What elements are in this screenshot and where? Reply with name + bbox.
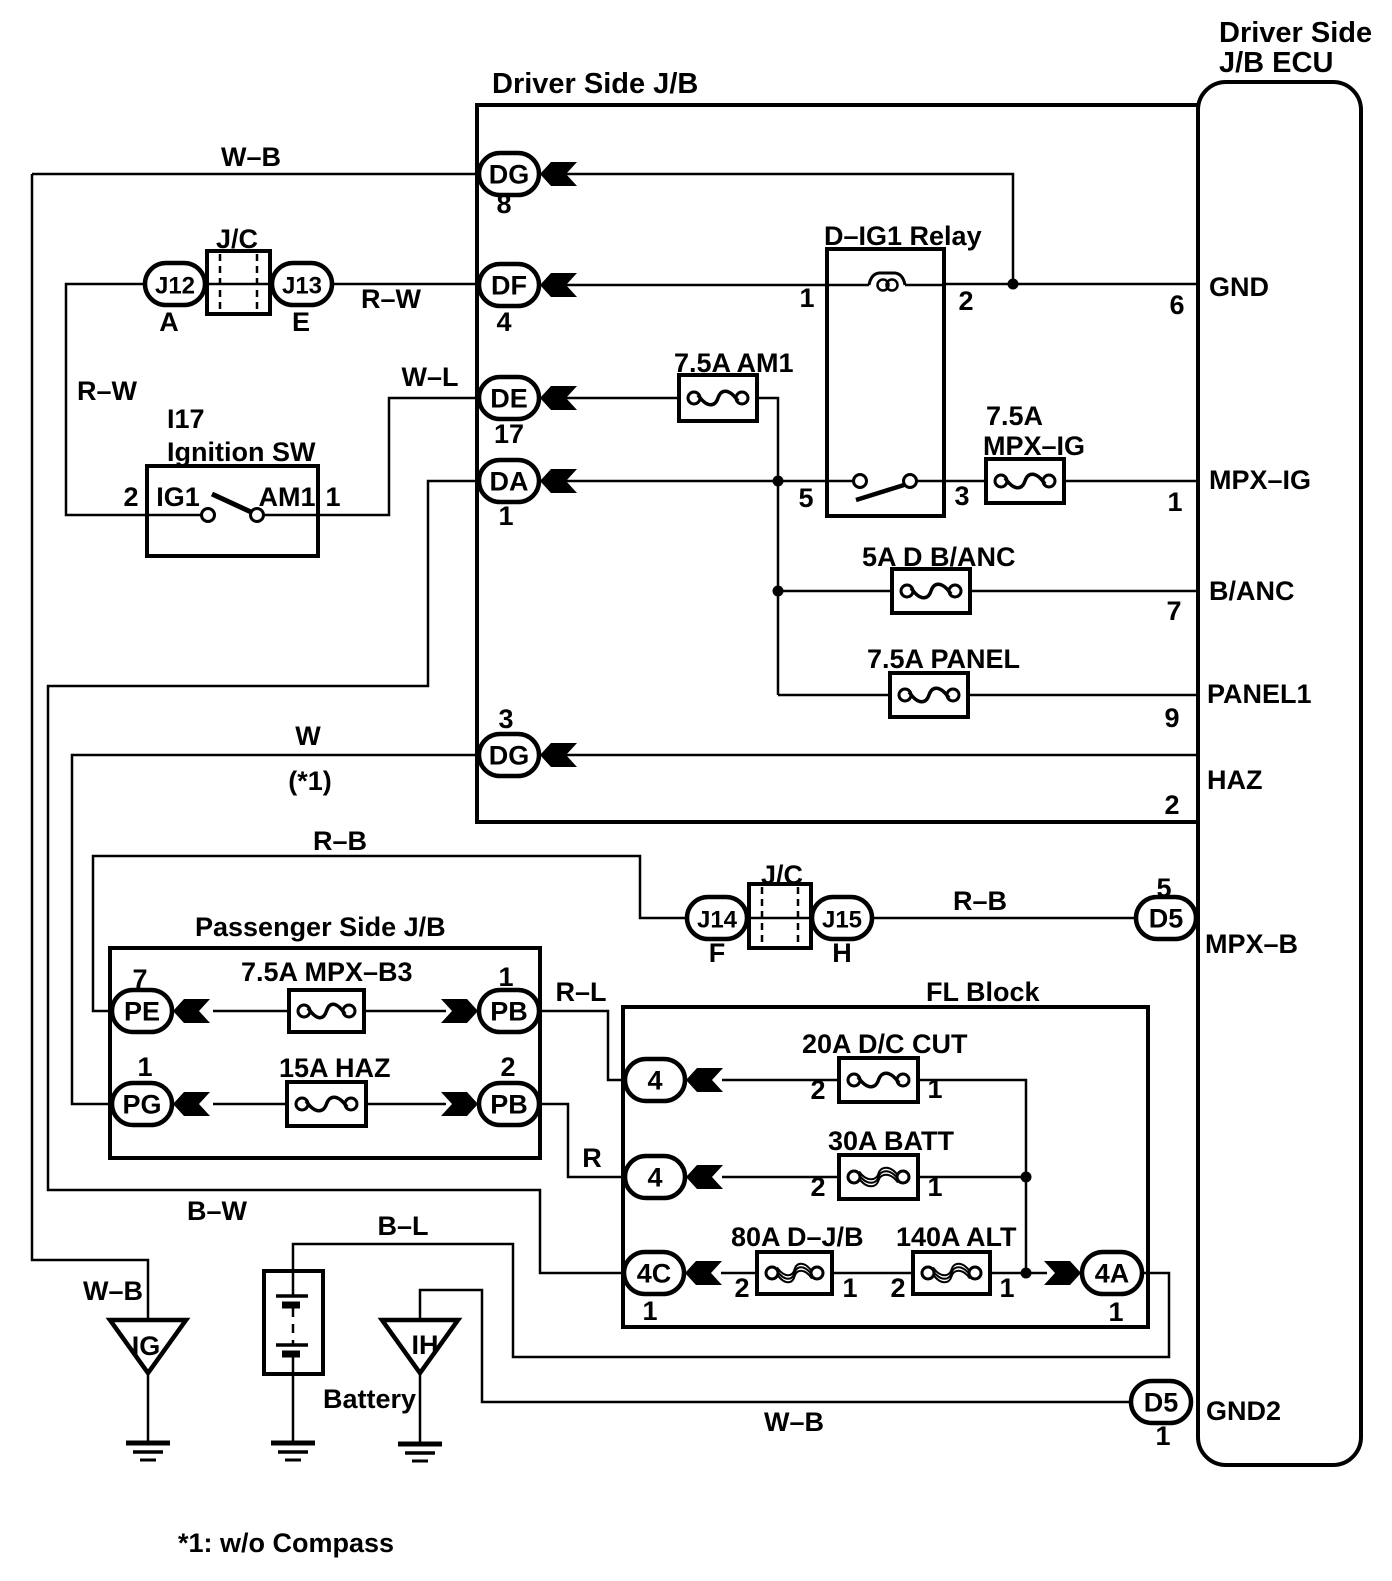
ignition switch I17 box [147, 466, 318, 556]
arrow into PB upper [441, 999, 478, 1023]
svg-text:B/ANC: B/ANC [1209, 576, 1295, 606]
svg-text:5: 5 [1156, 873, 1171, 903]
svg-text:4: 4 [647, 1066, 662, 1096]
wire fuse BATT to right bus [918, 1176, 1026, 1179]
svg-text:1: 1 [498, 501, 513, 531]
wire fuse HAZ to PB arrow [366, 1103, 446, 1106]
wire fuse MPX-B3 to PB arrow [364, 1010, 446, 1013]
svg-text:D5: D5 [1149, 904, 1184, 934]
svg-text:20A D/C CUT: 20A D/C CUT [802, 1029, 968, 1059]
fuse 15A HAZ [287, 1082, 366, 1126]
svg-text:2: 2 [734, 1273, 749, 1303]
svg-text:H: H [832, 938, 852, 968]
connector DE pin 17 [479, 377, 539, 419]
svg-text:J14: J14 [697, 907, 738, 934]
fuse 7.5A AM1 [679, 375, 757, 421]
svg-text:2: 2 [810, 1172, 825, 1202]
wire FL 4 lower to fuse BATT [722, 1176, 839, 1179]
svg-text:PB: PB [490, 1090, 528, 1120]
wire fuse AM1 to vertical bus [757, 398, 778, 695]
wire PANEL fuse to ECU pin9 [968, 694, 1198, 697]
arrow into PE [173, 999, 210, 1023]
fuse 80A D-J/B [757, 1252, 832, 1294]
fuse 7.5A PANEL [890, 673, 968, 717]
svg-text:R–W: R–W [77, 376, 138, 406]
svg-text:MPX–B: MPX–B [1205, 929, 1298, 959]
block Passenger Side J/B [110, 948, 540, 1158]
svg-text:3: 3 [954, 481, 969, 511]
connector D5 MPX-B [1136, 897, 1196, 939]
svg-text:R: R [582, 1143, 602, 1173]
svg-text:W–B: W–B [221, 142, 281, 172]
svg-text:5: 5 [798, 483, 813, 513]
svg-text:6: 6 [1169, 290, 1184, 320]
wire W-B from DG to IG ground, horizontal top [32, 173, 480, 176]
svg-text:MPX–IG: MPX–IG [983, 431, 1085, 461]
svg-text:DE: DE [490, 384, 528, 414]
arrow into FL 4C [685, 1261, 722, 1285]
arrow into PB lower [441, 1092, 478, 1116]
svg-text:GND2: GND2 [1206, 1396, 1281, 1426]
IG ground stem [147, 1373, 150, 1443]
svg-text:R–B: R–B [953, 886, 1007, 916]
svg-text:1: 1 [842, 1273, 857, 1303]
svg-text:PANEL1: PANEL1 [1207, 679, 1312, 709]
fuse 7.5A MPX-IG [986, 459, 1064, 503]
junction GND junction [1008, 279, 1019, 290]
svg-text:HAZ: HAZ [1207, 765, 1263, 795]
wire relay pin3 to fuse MPX-IG [917, 480, 986, 483]
svg-text:2: 2 [958, 286, 973, 316]
wire W-B IH triangle to D5 GND2 [420, 1290, 1132, 1402]
svg-text:4C: 4C [637, 1259, 672, 1289]
svg-text:D–IG1 Relay: D–IG1 Relay [824, 221, 982, 251]
connector J13 [272, 263, 332, 305]
svg-text:B–L: B–L [377, 1211, 428, 1241]
battery ground stem [292, 1374, 295, 1443]
junction connector J/C mid box [746, 884, 813, 948]
wire B/ANC row [778, 590, 892, 593]
svg-text:GND: GND [1209, 272, 1269, 302]
svg-text:7.5A: 7.5A [986, 401, 1043, 431]
arrow into DG [540, 162, 577, 186]
svg-text:Battery: Battery [323, 1384, 416, 1414]
relay switch contacts [854, 475, 917, 501]
svg-text:R–B: R–B [313, 826, 367, 856]
arrow into FL 4 lower [686, 1165, 723, 1189]
svg-text:J12: J12 [155, 273, 195, 300]
svg-text:Driver Side J/B: Driver Side J/B [492, 68, 698, 100]
svg-text:IH: IH [412, 1330, 439, 1360]
wire FL 4 upper to fuse D/C CUT [722, 1079, 839, 1082]
svg-text:1: 1 [927, 1172, 942, 1202]
fuse 5A D B/ANC [892, 569, 970, 613]
battery ground [271, 1443, 315, 1460]
connector FL 4A [1082, 1252, 1142, 1294]
svg-text:D5: D5 [1144, 1388, 1179, 1418]
svg-text:J/B ECU: J/B ECU [1219, 47, 1333, 79]
svg-text:DG: DG [489, 741, 530, 771]
wire W-B left vertical down to IG triangle [32, 174, 148, 1320]
svg-text:J/C: J/C [216, 224, 258, 254]
wire 4C arrow to fuse 80A [721, 1272, 757, 1275]
svg-text:W–B: W–B [764, 1407, 824, 1437]
ground triangle IH [382, 1320, 458, 1373]
svg-text:9: 9 [1164, 703, 1179, 733]
IH ground [398, 1444, 442, 1461]
wire R-L PB to FL 4 [538, 1011, 626, 1080]
wire HAZ DG3 to ECU pin2 [566, 754, 1198, 757]
svg-text:PE: PE [124, 997, 160, 1027]
svg-text:W–L: W–L [402, 362, 459, 392]
wire DA row to relay switch [566, 480, 853, 483]
fuse 20A D/C CUT [839, 1058, 918, 1102]
arrow into DG lower [540, 743, 577, 767]
svg-text:1: 1 [999, 1273, 1014, 1303]
svg-text:A: A [159, 307, 179, 337]
wire DA left to 4C via B-W [48, 481, 625, 1273]
connector DF pin 4 [479, 264, 539, 306]
ignition switch contacts [202, 494, 264, 522]
svg-text:1: 1 [1167, 487, 1182, 517]
wire R PB2 to FL 4 lower [538, 1104, 626, 1177]
svg-text:*1: w/o Compass: *1: w/o Compass [178, 1528, 394, 1558]
junction DA bus junction [773, 476, 784, 487]
wire DE to fuse AM1 [566, 397, 679, 400]
wire PG arrow to fuse HAZ [213, 1103, 287, 1106]
connector DA pin 1 [479, 460, 539, 502]
svg-text:DG: DG [489, 160, 530, 190]
svg-text:8: 8 [496, 189, 511, 219]
relay D-IG1 box [827, 249, 944, 516]
svg-text:DF: DF [491, 271, 527, 301]
svg-text:W–B: W–B [83, 1276, 143, 1306]
IH ground stem [419, 1373, 422, 1444]
block Driver Side J/B [477, 105, 1198, 822]
svg-text:7.5A PANEL: 7.5A PANEL [867, 644, 1020, 674]
arrow into DF [540, 273, 577, 297]
svg-text:17: 17 [494, 419, 524, 449]
svg-text:(*1): (*1) [288, 766, 332, 796]
svg-text:B–W: B–W [187, 1196, 248, 1226]
svg-text:140A ALT: 140A ALT [896, 1222, 1017, 1252]
relay coil [827, 273, 944, 291]
wire PE arrow to fuse MPX-B3 [213, 1010, 289, 1013]
wire R-W J13 to DF [331, 283, 480, 286]
junction B/ANC junction [773, 586, 784, 597]
wire fuse MPX-IG to ECU pin1 [1064, 480, 1198, 483]
connector J14 [687, 897, 747, 939]
svg-text:IG: IG [132, 1331, 161, 1361]
svg-text:2: 2 [123, 482, 138, 512]
svg-text:2: 2 [890, 1273, 905, 1303]
svg-text:4A: 4A [1095, 1259, 1130, 1289]
connector FL 4C [624, 1252, 684, 1294]
svg-text:1: 1 [642, 1296, 657, 1326]
connector J12 [145, 263, 205, 305]
svg-text:7: 7 [1166, 596, 1181, 626]
connector DG pin 8 [479, 153, 539, 195]
IG ground [126, 1443, 170, 1460]
svg-text:80A D–J/B: 80A D–J/B [731, 1222, 864, 1252]
junction ALT bus junction [1021, 1268, 1032, 1279]
svg-text:7.5A AM1: 7.5A AM1 [674, 348, 794, 378]
svg-text:DA: DA [490, 467, 529, 497]
connector FL 4 lower [625, 1156, 685, 1198]
connector PG pin 1 [112, 1083, 172, 1125]
svg-text:3: 3 [498, 704, 513, 734]
svg-text:1: 1 [325, 482, 340, 512]
fuse 30A BATT [839, 1155, 918, 1199]
wire PANEL row [778, 694, 890, 697]
ECU block Driver Side J/B ECU [1198, 82, 1361, 1465]
wire R-W J12 down to ignition switch IG1 [66, 284, 201, 515]
wire R-B PE up and over to J14 [93, 856, 688, 1011]
wire GND wire relay pin2 to ECU pin6 [944, 283, 1198, 286]
svg-text:15A HAZ: 15A HAZ [279, 1053, 391, 1083]
arrow into DE [540, 386, 577, 410]
wire DF to relay pin1 [566, 284, 827, 287]
connector PB pin 2 [479, 1083, 539, 1125]
wire fuse 140A to 4A arrow [990, 1272, 1047, 1275]
svg-text:2: 2 [500, 1052, 515, 1082]
wire fuse 80A to fuse 140A [832, 1272, 913, 1275]
svg-text:IG1: IG1 [156, 482, 200, 512]
svg-text:AM1: AM1 [258, 482, 315, 512]
wire DG to GND junction [566, 174, 1013, 284]
svg-text:Passenger Side J/B: Passenger Side J/B [195, 912, 446, 942]
svg-text:1: 1 [1108, 1297, 1123, 1327]
ground triangle IG [110, 1320, 186, 1373]
wire W wire DG3 left to PG [72, 755, 480, 1104]
connector PB pin 1 [479, 990, 539, 1032]
arrow into PG [173, 1092, 210, 1116]
svg-text:4: 4 [496, 307, 511, 337]
connector FL 4 upper [625, 1059, 685, 1101]
wire fuse D/C CUT to right bus [918, 1080, 1026, 1273]
svg-text:1: 1 [137, 1052, 152, 1082]
svg-text:1: 1 [927, 1074, 942, 1104]
battery [264, 1271, 323, 1374]
svg-text:2: 2 [810, 1075, 825, 1105]
svg-text:I17: I17 [167, 404, 205, 434]
svg-text:R–L: R–L [555, 977, 606, 1007]
wire W-L ignition AM1 to DE [263, 398, 480, 515]
arrow into FL 4 upper [686, 1068, 723, 1092]
svg-text:PB: PB [490, 997, 528, 1027]
svg-text:1: 1 [498, 962, 513, 992]
connector DG pin 3 [479, 734, 539, 776]
svg-text:FL Block: FL Block [926, 977, 1041, 1007]
svg-text:4: 4 [647, 1163, 662, 1193]
svg-text:R–W: R–W [361, 284, 422, 314]
svg-text:Ignition SW: Ignition SW [167, 437, 316, 467]
wire R-B J15 to D5 [871, 917, 1137, 920]
connector PE pin 7 [112, 990, 172, 1032]
svg-text:1: 1 [799, 283, 814, 313]
arrow into FL 4A [1044, 1261, 1081, 1285]
block FL Block [623, 1007, 1148, 1327]
connector J15 [812, 897, 872, 939]
svg-text:1: 1 [1155, 1421, 1170, 1451]
svg-text:PG: PG [122, 1090, 161, 1120]
junction connector J/C top box [204, 251, 273, 314]
connector D5 GND2 [1131, 1381, 1191, 1423]
svg-text:J/C: J/C [761, 860, 803, 890]
fuse 7.5A MPX-B3 [289, 990, 364, 1032]
svg-text:E: E [292, 307, 310, 337]
svg-text:30A BATT: 30A BATT [828, 1126, 955, 1156]
svg-text:J15: J15 [822, 907, 862, 934]
wire B-L battery to 4A [293, 1244, 1169, 1357]
fuse 140A ALT [913, 1252, 990, 1294]
wire B/ANC fuse to ECU pin7 [970, 590, 1198, 593]
svg-text:F: F [709, 938, 726, 968]
arrow into DA [540, 469, 577, 493]
svg-text:J13: J13 [282, 273, 322, 300]
svg-text:W: W [295, 721, 321, 751]
svg-text:5A D B/ANC: 5A D B/ANC [862, 542, 1016, 572]
svg-text:7.5A MPX–B3: 7.5A MPX–B3 [241, 957, 413, 987]
svg-text:MPX–IG: MPX–IG [1209, 465, 1311, 495]
svg-text:Driver Side: Driver Side [1219, 17, 1372, 49]
svg-text:7: 7 [132, 964, 147, 994]
junction BATT bus junction [1021, 1172, 1032, 1183]
svg-text:2: 2 [1164, 790, 1179, 820]
